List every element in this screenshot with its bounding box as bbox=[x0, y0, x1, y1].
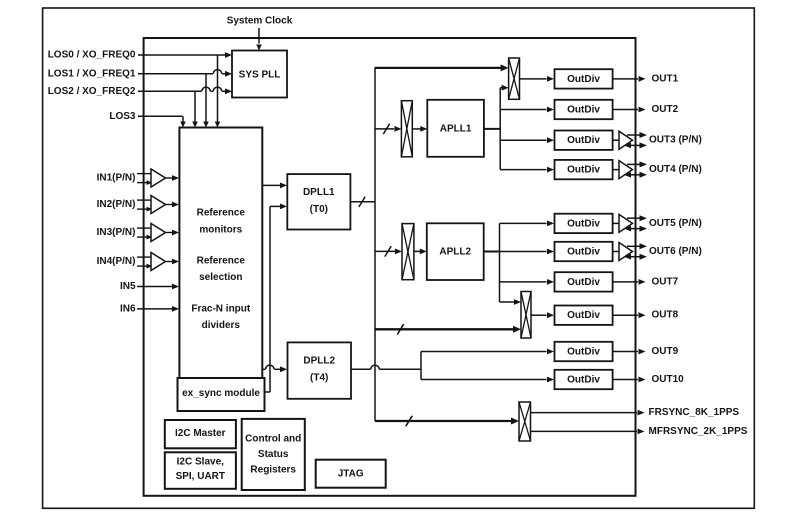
svg-text:OutDiv: OutDiv bbox=[567, 105, 600, 116]
svg-text:ex_sync module: ex_sync module bbox=[182, 388, 260, 399]
svg-text:LOS2 / XO_FREQ2: LOS2 / XO_FREQ2 bbox=[48, 86, 136, 97]
svg-text:FRSYNC_8K_1PPS: FRSYNC_8K_1PPS bbox=[649, 407, 740, 418]
svg-text:OUT5 (P/N): OUT5 (P/N) bbox=[649, 218, 702, 229]
svg-text:APLL2: APLL2 bbox=[439, 247, 471, 258]
svg-text:JTAG: JTAG bbox=[338, 469, 364, 480]
svg-text:Registers: Registers bbox=[250, 465, 296, 476]
svg-text:OutDiv: OutDiv bbox=[567, 74, 600, 85]
svg-text:LOS0 / XO_FREQ0: LOS0 / XO_FREQ0 bbox=[48, 50, 136, 61]
svg-text:DPLL1: DPLL1 bbox=[303, 187, 335, 198]
svg-text:SYS PLL: SYS PLL bbox=[239, 70, 281, 81]
svg-text:OutDiv: OutDiv bbox=[567, 277, 600, 288]
svg-text:Control and: Control and bbox=[245, 434, 301, 445]
svg-text:Reference: Reference bbox=[197, 208, 246, 219]
svg-text:OUT3 (P/N): OUT3 (P/N) bbox=[649, 135, 702, 146]
svg-text:OUT8: OUT8 bbox=[652, 310, 679, 321]
svg-text:(T0): (T0) bbox=[310, 204, 328, 215]
svg-text:(T4): (T4) bbox=[310, 373, 328, 384]
svg-text:OUT2: OUT2 bbox=[652, 104, 679, 115]
svg-text:dividers: dividers bbox=[202, 320, 241, 331]
svg-text:OutDiv: OutDiv bbox=[567, 247, 600, 258]
svg-text:OUT1: OUT1 bbox=[652, 73, 679, 84]
svg-text:OUT6 (P/N): OUT6 (P/N) bbox=[649, 246, 702, 257]
svg-text:I2C Slave,: I2C Slave, bbox=[177, 457, 224, 468]
svg-text:OutDiv: OutDiv bbox=[567, 310, 600, 321]
svg-text:DPLL2: DPLL2 bbox=[303, 356, 335, 367]
svg-text:APLL1: APLL1 bbox=[440, 123, 472, 134]
svg-text:selection: selection bbox=[199, 272, 242, 283]
svg-text:System Clock: System Clock bbox=[227, 16, 293, 27]
svg-text:Frac-N input: Frac-N input bbox=[191, 304, 251, 315]
svg-text:OUT9: OUT9 bbox=[652, 346, 679, 357]
svg-text:IN6: IN6 bbox=[120, 303, 136, 314]
svg-text:OUT4 (P/N): OUT4 (P/N) bbox=[649, 164, 702, 175]
svg-text:IN2(P/N): IN2(P/N) bbox=[97, 199, 136, 210]
svg-text:SPI, UART: SPI, UART bbox=[176, 471, 225, 482]
svg-text:OutDiv: OutDiv bbox=[567, 347, 600, 358]
svg-text:OutDiv: OutDiv bbox=[567, 165, 600, 176]
svg-text:LOS1 / XO_FREQ1: LOS1 / XO_FREQ1 bbox=[48, 68, 136, 79]
svg-text:OutDiv: OutDiv bbox=[567, 375, 600, 386]
svg-text:IN4(P/N): IN4(P/N) bbox=[97, 256, 136, 267]
svg-text:OUT10: OUT10 bbox=[652, 374, 685, 385]
svg-text:monitors: monitors bbox=[199, 225, 242, 236]
svg-text:IN1(P/N): IN1(P/N) bbox=[97, 173, 136, 184]
svg-text:MFRSYNC_2K_1PPS: MFRSYNC_2K_1PPS bbox=[649, 426, 748, 437]
svg-text:I2C Master: I2C Master bbox=[175, 428, 226, 439]
svg-text:LOS3: LOS3 bbox=[109, 111, 136, 122]
svg-text:OutDiv: OutDiv bbox=[567, 135, 600, 146]
svg-text:Status: Status bbox=[258, 449, 289, 460]
svg-text:OutDiv: OutDiv bbox=[567, 218, 600, 229]
svg-text:IN3(P/N): IN3(P/N) bbox=[97, 227, 136, 238]
svg-text:OUT7: OUT7 bbox=[652, 276, 679, 287]
svg-text:Reference: Reference bbox=[197, 256, 246, 267]
svg-text:IN5: IN5 bbox=[120, 281, 136, 292]
